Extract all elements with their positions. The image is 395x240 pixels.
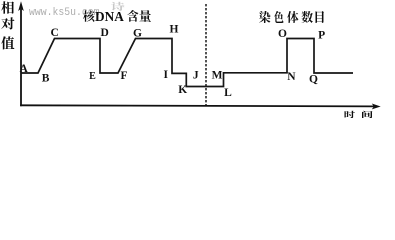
svg-text:www.ks5u.com: www.ks5u.com [29, 7, 100, 19]
svg-text:M: M [212, 69, 223, 81]
svg-text:G: G [133, 28, 142, 40]
svg-text:D: D [100, 27, 108, 39]
svg-text:E: E [89, 71, 96, 82]
svg-text:N: N [287, 71, 296, 83]
svg-text:C: C [51, 27, 59, 39]
svg-text:A: A [19, 63, 28, 75]
svg-text:F: F [120, 70, 127, 82]
svg-text:H: H [170, 24, 179, 36]
svg-text:B: B [42, 73, 50, 85]
svg-text:L: L [224, 87, 232, 99]
svg-text:I: I [164, 69, 169, 81]
svg-text:K: K [178, 84, 187, 96]
svg-text:J: J [193, 69, 199, 81]
svg-text:P: P [318, 29, 325, 41]
svg-text:O: O [278, 28, 287, 40]
svg-text:Q: Q [309, 73, 318, 85]
svg-text:DNA: DNA [95, 10, 125, 25]
